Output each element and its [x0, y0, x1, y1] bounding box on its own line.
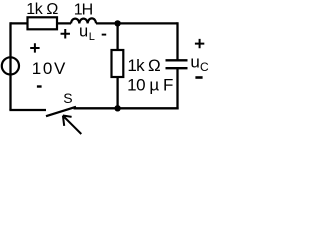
- resistor 1kΩ series (top): [28, 17, 58, 29]
- wire: right branch vertical: [176, 22, 178, 109]
- voltage source U 10V: [2, 57, 19, 74]
- label 10V (source value): [32, 59, 66, 78]
- wire: left vertical through source: [9, 22, 11, 110]
- label - (source polarity): [37, 85, 42, 87]
- label + (uL polarity): [61, 29, 70, 38]
- label 1H (inductor value): [74, 2, 94, 19]
- svg-text:1k Ω: 1k Ω: [127, 56, 160, 75]
- label - (uL polarity): [102, 34, 107, 36]
- label + (source polarity): [30, 43, 39, 52]
- label S (switch): [63, 90, 72, 106]
- resistor 1kΩ parallel (middle branch): [112, 50, 124, 77]
- svg-text:10 µ F: 10 µ F: [127, 76, 173, 95]
- label - (uC polarity): [195, 76, 202, 79]
- label + (uC polarity): [195, 39, 204, 48]
- wire: middle branch vertical: [116, 23, 118, 108]
- node: bottom junction of middle branch: [114, 105, 120, 111]
- svg-text:1k Ω: 1k Ω: [26, 1, 58, 18]
- svg-text:10V: 10V: [32, 59, 66, 78]
- label uL (inductor voltage): [79, 23, 95, 44]
- label 1kΩ (parallel resistor value): [127, 56, 160, 75]
- switch actuation arrow: [63, 116, 81, 135]
- node: top junction of middle branch: [114, 20, 120, 26]
- capacitor 10µF plates: [166, 60, 188, 68]
- wire: bottom rail from switch to capacitor branch: [74, 107, 179, 109]
- svg-text:S: S: [63, 90, 72, 106]
- svg-text:u: u: [79, 23, 88, 41]
- inductor 1H: [71, 18, 96, 23]
- wire: bottom-left to switch: [9, 109, 46, 111]
- svg-text:L: L: [89, 31, 95, 43]
- label uC (capacitor voltage): [190, 52, 209, 74]
- label 10µF (capacitor value): [127, 76, 173, 95]
- svg-text:C: C: [200, 60, 209, 74]
- wire: top rail from source to right branch: [11, 22, 178, 24]
- label 1kΩ (series resistor value): [26, 1, 58, 18]
- svg-text:1H: 1H: [74, 2, 94, 19]
- switch S blade: [46, 107, 76, 116]
- svg-text:u: u: [190, 52, 199, 71]
